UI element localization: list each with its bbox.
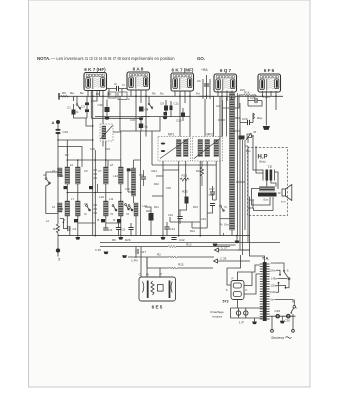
capacitor C4 xyxy=(103,228,112,232)
svg-text:C4: C4 xyxy=(109,228,113,232)
capacitor C33 chain under U1 right xyxy=(98,100,110,120)
svg-text:C15: C15 xyxy=(166,186,171,190)
svg-text:C7: C7 xyxy=(98,169,102,173)
svg-text:L7: L7 xyxy=(71,197,74,201)
svg-text:C21: C21 xyxy=(216,104,221,108)
inverter I6 xyxy=(127,205,133,216)
capacitor Cp under U2 xyxy=(139,117,149,132)
coil L11 xyxy=(104,201,109,216)
svg-text:R25: R25 xyxy=(182,190,188,194)
resistor Rd xyxy=(53,224,60,236)
switch contact dots in coil bank xyxy=(64,186,122,222)
mains terminals xyxy=(271,314,295,332)
svg-text:L6: L6 xyxy=(70,163,73,167)
ground under U5 xyxy=(263,126,270,130)
svg-text:R20: R20 xyxy=(146,209,151,213)
svg-text:R6: R6 xyxy=(112,238,116,242)
svg-text:C23: C23 xyxy=(105,147,110,151)
capacitor C12 xyxy=(177,210,182,224)
svg-text:145ʦ: 145ʦ xyxy=(271,276,277,280)
wire drops from tube U4 pins xyxy=(218,91,232,137)
svg-text:C33: C33 xyxy=(98,103,103,107)
svg-text:C17: C17 xyxy=(209,187,215,191)
wire top grid bus xyxy=(59,93,283,100)
svg-text:Rb: Rb xyxy=(96,92,100,96)
svg-text:R21: R21 xyxy=(152,169,158,173)
svg-text:L5: L5 xyxy=(60,207,64,211)
capacitor C11 xyxy=(170,101,180,117)
inverter I1 xyxy=(74,96,81,114)
capacitor C18 xyxy=(139,170,146,186)
svg-text:MF1: MF1 xyxy=(168,133,175,137)
coil L7 xyxy=(76,201,81,216)
capacitor C13 xyxy=(176,108,185,123)
HP wiring xyxy=(248,143,278,262)
inverter I2 xyxy=(148,96,153,109)
HP dashed enclosure xyxy=(248,148,288,216)
capacitor C26 xyxy=(240,117,253,125)
svg-text:L2: L2 xyxy=(46,219,49,223)
svg-text:L11: L11 xyxy=(109,197,114,201)
svg-text:F: F xyxy=(246,288,248,292)
inverter I4 xyxy=(84,205,90,216)
svg-text:Cr: Cr xyxy=(122,83,125,87)
resistor R16 xyxy=(239,91,256,97)
svg-text:I6: I6 xyxy=(127,212,130,216)
extra labels right bundle xyxy=(216,97,251,154)
resistor R25v with blob xyxy=(182,190,189,204)
capacitor Cr between U1 and U2 xyxy=(107,82,128,100)
svg-text:R9: R9 xyxy=(62,91,66,95)
selector contacts and arm S xyxy=(278,269,290,289)
oscillator section wires xyxy=(128,131,151,236)
wire bundle verticals xyxy=(220,93,248,255)
svg-text:R18: R18 xyxy=(196,169,201,173)
svg-text:Exc: Exc xyxy=(264,198,270,202)
capacitor C10 blob xyxy=(127,168,131,171)
speaker cone xyxy=(281,185,292,204)
svg-text:Re: Re xyxy=(80,91,84,95)
svg-text:Rb: Rb xyxy=(152,92,156,96)
inverter I9 xyxy=(220,205,228,212)
coil L5 xyxy=(60,201,70,216)
capacitor C25 xyxy=(248,95,262,106)
extra labels MF region xyxy=(154,182,206,233)
svg-text:6 K 7 (HF): 6 K 7 (HF) xyxy=(84,67,106,72)
Secteur label xyxy=(271,336,292,340)
coil L4 xyxy=(60,167,70,184)
ground mid right xyxy=(235,236,240,244)
tube U2 6A8 xyxy=(127,67,150,91)
main ground bus xyxy=(58,235,250,237)
extra wires MF region xyxy=(152,170,216,228)
inverter I7 xyxy=(125,204,130,210)
svg-text:Ra: Ra xyxy=(160,92,164,96)
svg-text:240ʦ: 240ʦ xyxy=(271,261,277,265)
svg-text:Cp: Cp xyxy=(145,125,149,129)
svg-text:C.Ph: C.Ph xyxy=(95,248,102,252)
svg-text:Bex: Bex xyxy=(246,149,251,153)
svg-text:R14: R14 xyxy=(190,229,195,233)
svg-text:Cr: Cr xyxy=(114,82,117,86)
MF1 transformer dashed box xyxy=(158,133,191,162)
tube U5 6F6 xyxy=(258,68,281,92)
svg-text:C33: C33 xyxy=(130,118,135,122)
svg-text:Secteur: Secteur xyxy=(271,336,285,340)
wire drops from tube U2 pins xyxy=(131,90,146,137)
svg-text:C20: C20 xyxy=(63,130,69,134)
capacitor C17 xyxy=(209,186,215,200)
svg-text:(Rola): (Rola) xyxy=(259,161,266,164)
svg-text:R13: R13 xyxy=(193,205,198,209)
antenna switch bypass wire xyxy=(46,134,58,224)
svg-text:lampes: lampes xyxy=(213,315,223,319)
oscillator coil L14 xyxy=(125,168,136,196)
svg-text:A: A xyxy=(52,120,55,125)
NOTA caption text xyxy=(37,56,205,61)
terminal T (terre) xyxy=(56,236,61,262)
svg-text:I3: I3 xyxy=(43,173,46,177)
svg-text:Cb: Cb xyxy=(197,79,201,83)
wires below MF boxes xyxy=(152,131,216,236)
capacitor C32 xyxy=(171,238,184,243)
svg-text:F: F xyxy=(226,288,228,292)
svg-text:6 A 8: 6 A 8 xyxy=(133,67,144,72)
wire column L8 xyxy=(94,167,98,216)
capacitor C31 xyxy=(209,193,216,206)
svg-text:T. A.: T. A. xyxy=(262,257,269,261)
svg-text:Ra: Ra xyxy=(70,91,74,95)
extra tiny labels left xyxy=(46,147,116,223)
wires linking U4/U5 cluster xyxy=(232,95,262,123)
ground near lamps xyxy=(252,318,257,324)
oscillator padder dashed box xyxy=(100,124,113,141)
svg-text:Pr. Gm: Pr. Gm xyxy=(220,223,230,227)
tube U4 6Q7 xyxy=(214,68,237,92)
svg-text:L4: L4 xyxy=(60,174,64,178)
wires to 6E5 pins xyxy=(141,247,160,278)
junction dots on top bus xyxy=(92,95,277,97)
svg-text:R3: R3 xyxy=(65,153,69,157)
svg-text:R12: R12 xyxy=(186,243,192,247)
speaker field coil (excitation) xyxy=(249,187,277,203)
svg-text:C14: C14 xyxy=(170,227,176,231)
ground blob under C9 xyxy=(163,112,168,119)
svg-text:I1: I1 xyxy=(76,110,79,114)
svg-text:+12V: +12V xyxy=(263,95,270,99)
extra top labels xyxy=(96,83,245,122)
svg-text:— Les inverseurs I1 I2 I3 I4 I: — Les inverseurs I1 I2 I3 I4 I5 I6 I7 I8… xyxy=(51,56,175,61)
anode decoupling parts between U3 and U4 xyxy=(197,75,214,137)
svg-text:C1: C1 xyxy=(67,106,71,110)
capacitor C6 xyxy=(116,222,134,236)
svg-text:L.P: L.P xyxy=(239,321,244,325)
svg-text:L10: L10 xyxy=(99,195,104,199)
HP inner wires nested xyxy=(252,193,281,211)
transformer tap labels xyxy=(270,261,278,302)
svg-text:I5: I5 xyxy=(111,212,114,216)
wire drops from tube U5 pins xyxy=(263,91,277,126)
resistor R25 row xyxy=(147,263,213,270)
resistor R21 xyxy=(152,169,158,173)
svg-text:C30: C30 xyxy=(285,319,291,323)
ground C.PN xyxy=(95,248,138,263)
svg-text:Chauffage: Chauffage xyxy=(210,310,224,314)
svg-text:+RA: +RA xyxy=(201,68,208,72)
filament supply lines xyxy=(231,308,263,318)
svg-text:6 E 5: 6 E 5 xyxy=(152,305,163,310)
capacitor C9 xyxy=(160,100,168,117)
output transformer T.E xyxy=(263,165,275,181)
inverter I5 xyxy=(111,205,117,216)
potentiometer P with inverter I8 xyxy=(239,129,257,144)
svg-text:R11: R11 xyxy=(154,205,159,209)
resistor Rsp xyxy=(253,113,263,120)
capacitor C1 xyxy=(67,104,87,118)
svg-text:C9: C9 xyxy=(160,102,164,106)
svg-text:I8: I8 xyxy=(254,130,257,134)
svg-text:R2: R2 xyxy=(157,253,161,257)
antenna coil L5 xyxy=(52,168,62,177)
inverter I3 xyxy=(43,173,50,186)
svg-text:GO.: GO. xyxy=(197,56,205,61)
rectifier wiring xyxy=(227,255,260,308)
coil L13 xyxy=(119,201,124,216)
svg-text:C 28: C 28 xyxy=(220,257,227,261)
svg-text:C13: C13 xyxy=(176,119,182,123)
resistor R28 row xyxy=(128,253,214,259)
svg-text:C 27: C 27 xyxy=(221,246,228,250)
svg-text:P: P xyxy=(232,277,234,281)
svg-text:R10: R10 xyxy=(154,182,159,186)
svg-text:C16: C16 xyxy=(168,213,173,217)
svg-text:R26: R26 xyxy=(182,174,188,178)
wire row linking U3 cluster xyxy=(120,96,190,131)
tube U3 6K7(MF) xyxy=(171,68,194,92)
trimmer C20 xyxy=(55,124,68,135)
connector C28 xyxy=(214,257,251,264)
svg-text:I4: I4 xyxy=(84,212,87,216)
svg-text:C19: C19 xyxy=(201,217,206,221)
capacitor Cc under U2 xyxy=(139,103,150,120)
svg-text:Rd: Rd xyxy=(53,227,57,231)
resistor R26 label xyxy=(180,174,189,182)
svg-text:6 F 6: 6 F 6 xyxy=(264,68,275,73)
coil L12 xyxy=(113,167,123,184)
svg-text:R15: R15 xyxy=(240,88,245,92)
MF2 transformer dashed box xyxy=(193,133,223,162)
svg-text:NOTA.: NOTA. xyxy=(37,56,50,61)
capacitor C2 xyxy=(60,219,77,236)
svg-text:120ʦ: 120ʦ xyxy=(271,283,277,287)
svg-text:110ʦ: 110ʦ xyxy=(270,290,276,294)
wire drops from tube U3 pins xyxy=(175,91,190,137)
capacitor R27 vertical xyxy=(136,247,146,259)
resistor R18 xyxy=(196,161,204,186)
svg-text:C32: C32 xyxy=(179,238,185,242)
svg-text:L12: L12 xyxy=(113,174,118,178)
rectifier 5Y3 xyxy=(223,277,248,304)
coil L6 xyxy=(76,167,81,184)
svg-text:L16: L16 xyxy=(143,204,148,208)
resistor R20 block xyxy=(146,209,154,221)
junction dots coil bank xyxy=(57,125,121,193)
coil L10 xyxy=(99,167,108,199)
svg-text:C22: C22 xyxy=(90,147,95,151)
ground symbols under bus xyxy=(75,237,217,246)
terminal A (antenne) xyxy=(52,120,61,125)
svg-text:T.E: T.E xyxy=(268,165,273,169)
svg-text:C11: C11 xyxy=(174,102,180,106)
svg-text:R25: R25 xyxy=(178,263,184,267)
svg-text:L8: L8 xyxy=(110,163,113,167)
svg-text:C3: C3 xyxy=(81,105,85,109)
HF choke coil (anode feed) xyxy=(220,93,235,230)
connector C27 xyxy=(215,246,251,253)
svg-text:C29: C29 xyxy=(275,309,281,313)
power switch I xyxy=(291,300,298,314)
svg-text:Rd: Rd xyxy=(196,92,200,96)
transformer primary selector wires xyxy=(275,263,294,303)
svg-text:0ʦ: 0ʦ xyxy=(271,298,274,302)
svg-text:C6: C6 xyxy=(122,228,126,232)
svg-text:C5: C5 xyxy=(84,169,88,173)
svg-text:C31: C31 xyxy=(209,193,215,197)
svg-text:C2: C2 xyxy=(73,227,77,231)
capacitor C14 xyxy=(164,222,175,236)
svg-text:b.m: b.m xyxy=(281,200,286,204)
6E5 tube U6 xyxy=(139,273,176,310)
antenna coil L6 xyxy=(52,203,62,212)
svg-text:6 K 7 (MF): 6 K 7 (MF) xyxy=(172,68,194,73)
svg-text:S: S xyxy=(287,269,289,273)
svg-text:G: G xyxy=(146,273,149,277)
svg-text:C25: C25 xyxy=(250,96,256,100)
resistor R6 R26 labels xyxy=(112,238,131,242)
pilot lamps L.P xyxy=(236,308,248,325)
tube U1 6K7(HF) xyxy=(84,67,107,91)
resistor R2 row xyxy=(100,243,230,248)
svg-text:C8: C8 xyxy=(84,202,88,206)
extra grid wires left section xyxy=(58,118,121,223)
Chauffage lampes label xyxy=(210,310,224,319)
wires of coil bank xyxy=(58,140,121,236)
svg-text:5Y3: 5Y3 xyxy=(223,300,229,304)
svg-text:R26: R26 xyxy=(125,238,131,242)
svg-text:C.PN: C.PN xyxy=(131,259,138,263)
power transformer T.A. xyxy=(260,257,270,322)
svg-text:L6: L6 xyxy=(52,205,55,209)
wire drops from tube U1 pins xyxy=(88,91,140,236)
resistor R9 xyxy=(61,91,85,97)
svg-text:C26: C26 xyxy=(242,117,248,121)
secondary bus xyxy=(100,242,280,244)
svg-text:Rsp: Rsp xyxy=(257,116,263,120)
capacitor C3 xyxy=(81,96,89,118)
extra bundle cross wires xyxy=(214,96,250,255)
svg-text:220ʦ: 220ʦ xyxy=(270,268,276,272)
oscillator coil L16 xyxy=(134,203,147,216)
svg-text:6 Q 7: 6 Q 7 xyxy=(220,68,232,73)
mains line with C29 C30 xyxy=(270,309,296,323)
svg-text:MF2: MF2 xyxy=(207,133,214,137)
